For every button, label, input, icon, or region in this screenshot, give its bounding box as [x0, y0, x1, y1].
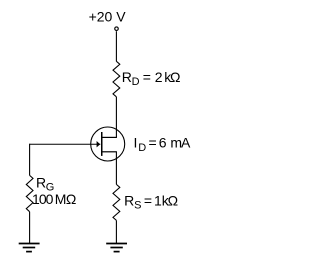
wire RS to ground [115, 220, 117, 243]
wire gate corner down to RG [29, 144, 31, 176]
transistor Q1 source stub [101, 151, 117, 153]
transistor Q1 body circle [91, 127, 125, 161]
resistor RS [113, 184, 120, 220]
wire gate horizontal [30, 143, 101, 145]
transistor Q1 channel bar [101, 132, 103, 156]
resistor RG [26, 175, 33, 211]
resistor RD [113, 61, 120, 97]
wire RD to drain stub [115, 97, 117, 138]
svg-text:100MΩ: 100MΩ [32, 191, 76, 207]
wire source to RS [115, 152, 117, 185]
supply terminal [115, 27, 119, 31]
ground left [19, 244, 40, 252]
transistor Q1 gate arrow [97, 141, 101, 147]
ground right [106, 244, 127, 252]
transistor Q1 drain stub [101, 136, 117, 138]
wire supply to RD [115, 31, 117, 61]
svg-text:+20 V: +20 V [89, 8, 127, 24]
wire RG to ground [29, 212, 31, 244]
